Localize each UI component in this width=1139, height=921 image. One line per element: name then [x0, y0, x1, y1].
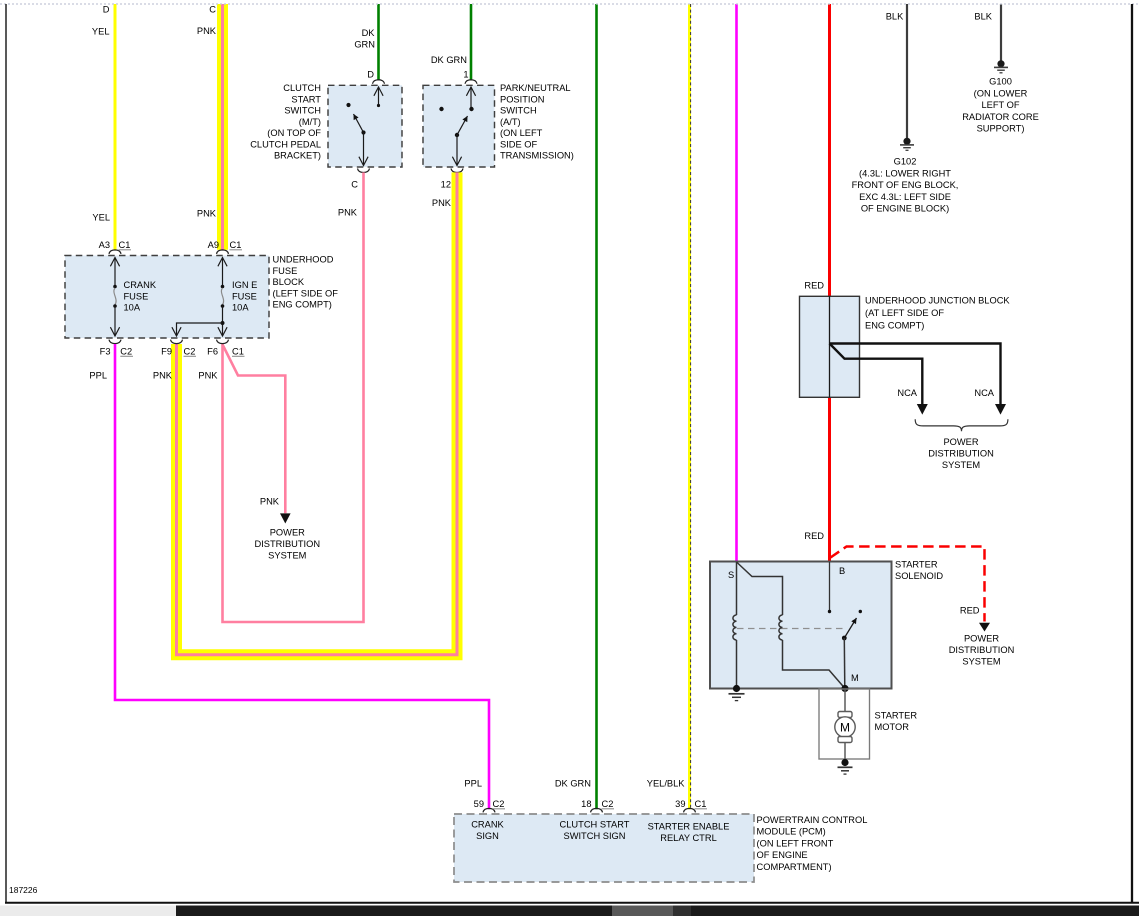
svg-text:A9: A9	[208, 240, 219, 250]
park/neutral switch terminal 1 connector	[465, 80, 477, 84]
svg-text:D: D	[367, 70, 374, 80]
wire PNK from fuse F6 loop to clutch switch C	[223, 172, 364, 622]
svg-text:C2: C2	[602, 799, 614, 809]
crank fuse 10A	[113, 258, 157, 337]
svg-text:PNK: PNK	[432, 198, 452, 208]
starter motor housing	[819, 689, 917, 759]
svg-text:187226: 187226	[9, 885, 38, 895]
ground G100	[962, 60, 1039, 134]
svg-text:SWITCH SIGN: SWITCH SIGN	[564, 831, 626, 841]
svg-text:STARTER ENABLE: STARTER ENABLE	[648, 822, 730, 832]
svg-text:(LEFT SIDE OF: (LEFT SIDE OF	[273, 288, 339, 298]
svg-text:SIGN: SIGN	[476, 831, 499, 841]
svg-text:PNK: PNK	[338, 208, 358, 218]
wire PNK with yellow highlight from fuse F9 loop to park/neutral 12	[177, 172, 458, 654]
arrow to power distribution system (PNK)	[254, 513, 320, 560]
clutch switch internal contacts and arm	[346, 87, 380, 166]
park/neutral switch terminal 12 connector	[432, 169, 463, 209]
solenoid switch arm and M contact	[841, 610, 862, 692]
svg-text:PARK/NEUTRAL: PARK/NEUTRAL	[500, 83, 571, 93]
svg-text:UNDERHOOD JUNCTION BLOCK: UNDERHOOD JUNCTION BLOCK	[865, 296, 1010, 306]
svg-text:10A: 10A	[124, 303, 141, 313]
svg-text:C2: C2	[184, 347, 196, 357]
svg-text:ENG COMPT): ENG COMPT)	[273, 300, 332, 310]
svg-text:SUPPORT): SUPPORT)	[977, 124, 1025, 134]
svg-text:FUSE: FUSE	[232, 291, 257, 301]
svg-text:C1: C1	[232, 347, 244, 357]
svg-text:EXC 4.3L: LEFT SIDE: EXC 4.3L: LEFT SIDE	[859, 192, 951, 202]
wire BLK to G102	[886, 4, 907, 138]
svg-text:POWER: POWER	[964, 634, 999, 644]
svg-text:SYSTEM: SYSTEM	[942, 460, 980, 470]
wire RED dashed from B to power distribution	[831, 547, 1015, 667]
svg-text:BLK: BLK	[886, 11, 904, 21]
horizontal scrollbar thumb shadow segment	[673, 906, 691, 917]
svg-text:DK GRN: DK GRN	[555, 779, 591, 789]
svg-text:SYSTEM: SYSTEM	[962, 657, 1000, 667]
svg-text:TRANSMISSION): TRANSMISSION)	[500, 151, 574, 161]
svg-text:C1: C1	[695, 799, 707, 809]
svg-text:59: 59	[474, 799, 484, 809]
underhood fuse block box	[65, 255, 338, 339]
diagram right border	[1131, 4, 1133, 902]
svg-text:C: C	[351, 180, 358, 190]
wire DK GRN from top to PCM 18	[555, 4, 597, 809]
svg-text:39: 39	[675, 799, 685, 809]
svg-text:C2: C2	[493, 799, 505, 809]
svg-text:YEL: YEL	[92, 27, 110, 37]
svg-text:CLUTCH START: CLUTCH START	[560, 820, 630, 830]
svg-text:UNDERHOOD: UNDERHOOD	[273, 255, 334, 265]
starter motor M	[835, 689, 855, 762]
fuse block terminal A9 C1	[208, 240, 242, 254]
diagram bottom border	[5, 902, 1139, 904]
NCA wire left branch	[830, 344, 928, 415]
clutch start switch box	[250, 83, 402, 167]
svg-text:MODULE (PCM): MODULE (PCM)	[757, 827, 826, 837]
svg-text:PNK: PNK	[197, 209, 217, 219]
svg-text:M: M	[840, 721, 850, 735]
fuse block terminal F6 C1	[198, 340, 244, 381]
svg-text:POSITION: POSITION	[500, 94, 544, 104]
svg-text:RED: RED	[804, 281, 824, 291]
svg-text:PPL: PPL	[464, 779, 482, 789]
svg-text:A3: A3	[99, 240, 110, 250]
wire PNK (C) with yellow highlight from top to fuse A9	[197, 4, 223, 250]
fuse block internal wire from IGN E fuse to F9	[177, 321, 225, 336]
svg-text:(ON TOP OF: (ON TOP OF	[267, 128, 321, 138]
wire BLK to G100	[974, 4, 1001, 61]
svg-text:SWITCH: SWITCH	[500, 106, 537, 116]
powertrain control module box	[454, 814, 867, 882]
svg-text:SWITCH: SWITCH	[284, 106, 321, 116]
svg-text:1: 1	[463, 70, 468, 80]
svg-text:PNK: PNK	[153, 371, 173, 381]
svg-text:(4.3L: LOWER RIGHT: (4.3L: LOWER RIGHT	[859, 168, 951, 178]
clutch switch terminal C connector	[338, 169, 370, 218]
fuse block terminal F3 C2	[89, 340, 133, 381]
svg-text:DISTRIBUTION: DISTRIBUTION	[928, 449, 994, 459]
svg-text:YEL/BLK: YEL/BLK	[647, 779, 686, 789]
svg-text:PNK: PNK	[198, 371, 218, 381]
svg-text:SOLENOID: SOLENOID	[895, 571, 943, 581]
ign E fuse 10A	[221, 258, 258, 337]
svg-text:START: START	[291, 94, 321, 104]
svg-text:(ON LOWER: (ON LOWER	[974, 88, 1028, 98]
svg-text:RADIATOR CORE: RADIATOR CORE	[962, 112, 1039, 122]
svg-text:GRN: GRN	[354, 40, 375, 50]
svg-text:C1: C1	[230, 240, 242, 250]
solenoid ground	[729, 685, 745, 701]
clutch switch terminal D connector	[373, 80, 385, 84]
svg-text:(AT LEFT SIDE OF: (AT LEFT SIDE OF	[865, 308, 944, 318]
ground G102	[852, 138, 959, 214]
fuse block terminal F9 C2	[153, 340, 196, 381]
svg-text:CRANK: CRANK	[471, 820, 504, 830]
svg-text:BLOCK: BLOCK	[273, 277, 305, 287]
svg-text:DK GRN: DK GRN	[431, 55, 467, 65]
svg-text:F3: F3	[100, 347, 111, 357]
wire DK GRN from top to clutch switch D	[354, 4, 378, 80]
svg-text:(A/T): (A/T)	[500, 117, 521, 127]
svg-text:DK: DK	[362, 28, 376, 38]
svg-text:STARTER: STARTER	[895, 560, 938, 570]
wire DK GRN from top to park/neutral switch 1	[431, 4, 471, 80]
svg-text:OF ENGINE BLOCK): OF ENGINE BLOCK)	[861, 204, 949, 214]
svg-text:C1: C1	[119, 240, 131, 250]
svg-text:F6: F6	[207, 347, 218, 357]
svg-text:BRACKET): BRACKET)	[274, 151, 321, 161]
wire RED from top through junction block to solenoid B	[804, 4, 829, 562]
svg-text:SIDE OF: SIDE OF	[500, 139, 538, 149]
svg-text:MOTOR: MOTOR	[875, 722, 910, 732]
svg-text:CLUTCH PEDAL: CLUTCH PEDAL	[250, 139, 321, 149]
wire PPL from fuse F3 to PCM 59	[115, 344, 489, 809]
svg-text:YEL: YEL	[92, 213, 110, 223]
PCM terminal 18 C2	[560, 799, 630, 841]
svg-text:S: S	[728, 570, 734, 580]
svg-text:10A: 10A	[232, 303, 249, 313]
svg-text:LEFT OF: LEFT OF	[981, 100, 1019, 110]
svg-text:FUSE: FUSE	[273, 266, 298, 276]
svg-text:STARTER: STARTER	[875, 711, 918, 721]
fuse block terminal A3 C1	[99, 240, 131, 254]
park/neutral position switch box	[423, 83, 574, 167]
wire YEL from top to fuse A3	[92, 4, 115, 250]
wire YEL/BLK from top to PCM 39	[647, 4, 691, 809]
underhood junction block	[800, 296, 1011, 398]
solenoid hold-in coil branch to M	[737, 562, 846, 689]
svg-text:C: C	[209, 5, 216, 15]
svg-text:POWERTRAIN CONTROL: POWERTRAIN CONTROL	[757, 815, 868, 825]
svg-text:RELAY CTRL: RELAY CTRL	[660, 833, 717, 843]
svg-text:NCA: NCA	[974, 388, 994, 398]
brace power distribution system (junction block)	[915, 419, 1008, 470]
NCA wire right branch	[830, 344, 1007, 415]
wire PNK branch from F6 to power distribution arrow	[223, 345, 286, 514]
solenoid mechanical link dashed line	[737, 628, 846, 630]
horizontal scrollbar track left light section	[0, 906, 176, 917]
svg-text:C2: C2	[120, 347, 132, 357]
svg-text:CRANK: CRANK	[124, 280, 157, 290]
svg-text:12: 12	[441, 180, 451, 190]
svg-text:F9: F9	[161, 347, 172, 357]
svg-text:G100: G100	[989, 77, 1012, 87]
svg-text:(M/T): (M/T)	[299, 117, 321, 127]
svg-text:COMPARTMENT): COMPARTMENT)	[757, 862, 832, 872]
svg-text:B: B	[839, 566, 845, 576]
park/neutral switch internal contacts and arm	[439, 87, 473, 166]
PCM terminal 59 C2	[471, 799, 505, 841]
svg-text:DISTRIBUTION: DISTRIBUTION	[254, 539, 320, 549]
svg-text:POWER: POWER	[270, 528, 305, 538]
svg-text:NCA: NCA	[897, 388, 917, 398]
solenoid pull-in coil (S branch)	[733, 562, 737, 689]
svg-text:PPL: PPL	[89, 371, 107, 381]
svg-text:RED: RED	[804, 531, 824, 541]
svg-text:D: D	[103, 5, 110, 15]
svg-text:OF ENGINE: OF ENGINE	[757, 850, 808, 860]
svg-text:DISTRIBUTION: DISTRIBUTION	[949, 645, 1015, 655]
solenoid B contact	[828, 562, 831, 613]
wire PPL from top to solenoid S	[735, 4, 738, 562]
svg-text:PNK: PNK	[197, 26, 217, 36]
svg-text:18: 18	[581, 799, 591, 809]
svg-text:ENG COMPT): ENG COMPT)	[865, 321, 924, 331]
starter solenoid box	[710, 560, 943, 689]
svg-text:FRONT OF ENG BLOCK,: FRONT OF ENG BLOCK,	[852, 180, 959, 190]
svg-text:IGN E: IGN E	[232, 280, 257, 290]
PCM terminal 39 C1	[648, 799, 730, 843]
horizontal scrollbar dark track	[176, 906, 1139, 917]
svg-text:(ON LEFT: (ON LEFT	[500, 128, 543, 138]
horizontal scrollbar thumb	[612, 906, 673, 917]
svg-text:RED: RED	[960, 606, 980, 616]
starter motor ground	[838, 759, 853, 774]
svg-text:CLUTCH: CLUTCH	[283, 83, 321, 93]
svg-text:M: M	[851, 673, 859, 683]
svg-text:BLK: BLK	[974, 11, 992, 21]
svg-text:FUSE: FUSE	[124, 291, 149, 301]
diagram top border	[0, 3, 1139, 5]
svg-text:SYSTEM: SYSTEM	[268, 551, 306, 561]
svg-text:G102: G102	[894, 157, 917, 167]
diagram left border	[5, 4, 7, 902]
svg-text:PNK: PNK	[260, 497, 280, 507]
svg-text:(ON LEFT FRONT: (ON LEFT FRONT	[757, 838, 834, 848]
svg-text:POWER: POWER	[943, 437, 978, 447]
